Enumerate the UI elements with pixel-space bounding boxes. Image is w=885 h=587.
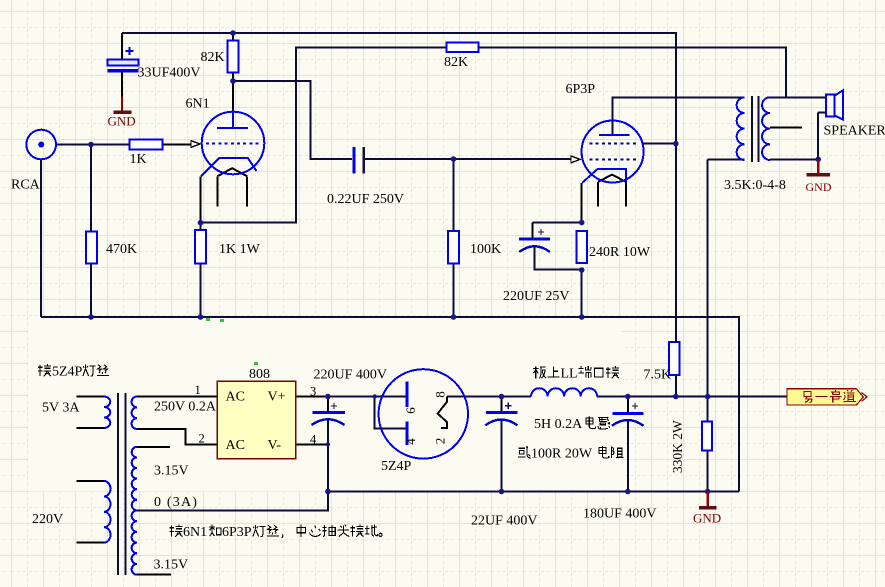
svg-text:3.5K:0-4-8: 3.5K:0-4-8 <box>724 178 786 193</box>
svg-text:0 (3A): 0 (3A) <box>154 495 198 510</box>
svg-text:3: 3 <box>310 385 316 399</box>
svg-text:5Z4P: 5Z4P <box>52 365 83 380</box>
svg-text:AC: AC <box>226 390 245 405</box>
svg-text:GND: GND <box>806 180 832 194</box>
svg-text:33UF400V: 33UF400V <box>138 66 201 81</box>
svg-text:LL: LL <box>561 367 578 382</box>
svg-text:4: 4 <box>310 433 317 447</box>
svg-text:470K: 470K <box>106 242 137 257</box>
svg-text:3.15V: 3.15V <box>154 558 189 573</box>
svg-text:V-: V- <box>268 438 282 453</box>
svg-text:0.22UF 250V: 0.22UF 250V <box>327 192 404 207</box>
svg-text:1K 1W: 1K 1W <box>219 242 261 257</box>
svg-text:2: 2 <box>432 438 447 445</box>
svg-text:RCA: RCA <box>11 178 41 193</box>
svg-text:5Z4P: 5Z4P <box>381 459 412 474</box>
svg-text:3.15V: 3.15V <box>154 464 189 479</box>
svg-text:180UF 400V: 180UF 400V <box>583 507 657 522</box>
svg-text:GND: GND <box>108 113 136 128</box>
svg-text:5H 0.2A: 5H 0.2A <box>534 417 583 432</box>
svg-text:808: 808 <box>249 367 270 382</box>
svg-text:5V 3A: 5V 3A <box>42 401 80 416</box>
svg-text:82K: 82K <box>201 50 225 65</box>
svg-text:6: 6 <box>403 407 418 414</box>
svg-text:240R 10W: 240R 10W <box>589 245 651 260</box>
svg-text:6P3P: 6P3P <box>222 525 252 540</box>
svg-text:1K: 1K <box>130 152 147 167</box>
svg-text:82K: 82K <box>444 55 468 70</box>
svg-text:7.5K: 7.5K <box>644 368 672 383</box>
svg-text:6P3P: 6P3P <box>566 82 596 97</box>
svg-text:1: 1 <box>195 383 201 397</box>
svg-text:330K 2W: 330K 2W <box>670 420 685 473</box>
svg-text:8: 8 <box>432 391 447 398</box>
svg-text:V+: V+ <box>268 390 286 405</box>
svg-text:2: 2 <box>199 432 205 446</box>
svg-text:4: 4 <box>403 438 418 445</box>
svg-text:100R 20W: 100R 20W <box>531 447 593 462</box>
svg-text:220UF 25V: 220UF 25V <box>503 289 570 304</box>
svg-text:6N1: 6N1 <box>183 525 207 540</box>
svg-text:22UF 400V: 22UF 400V <box>471 514 538 529</box>
svg-text:GND: GND <box>693 511 721 526</box>
svg-text:AC: AC <box>226 438 245 453</box>
svg-text:250V 0.2A: 250V 0.2A <box>154 400 217 415</box>
svg-text:220UF 400V: 220UF 400V <box>314 368 388 383</box>
svg-text:SPEAKER: SPEAKER <box>824 124 885 139</box>
svg-text:100K: 100K <box>470 242 501 257</box>
svg-text:220V: 220V <box>32 512 63 527</box>
svg-text:6N1: 6N1 <box>186 97 210 112</box>
